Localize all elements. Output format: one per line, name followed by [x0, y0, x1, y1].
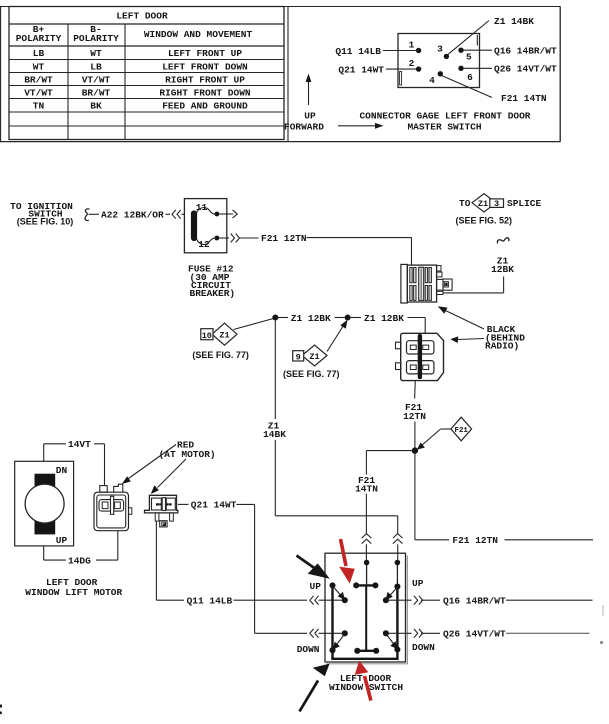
wire F21 12TN from breaker to connector C1 — [219, 233, 411, 265]
inline connector break on Z1 14BK — [393, 534, 403, 561]
svg-text:DN: DN — [56, 465, 68, 476]
svg-text:DOWN: DOWN — [412, 642, 435, 653]
svg-text:LB: LB — [33, 48, 45, 59]
svg-text:Q16 14BR/WT: Q16 14BR/WT — [494, 46, 557, 57]
svg-text:F21 12TN: F21 12TN — [261, 233, 307, 244]
svg-text:WINDOW AND MOVEMENT: WINDOW AND MOVEMENT — [144, 29, 253, 40]
svg-text:(SEE FIG. 10): (SEE FIG. 10) — [17, 216, 74, 226]
off-page connector 10 Z1 (SEE FIG. 77) — [192, 319, 273, 360]
svg-text:LEFT FRONT UP: LEFT FRONT UP — [168, 48, 242, 59]
switch S1 left door window switch — [325, 553, 407, 664]
svg-text:F21 12TN: F21 12TN — [452, 535, 498, 546]
svg-text:10: 10 — [202, 331, 212, 341]
svg-text:BR/WT: BR/WT — [24, 74, 53, 85]
wire Z1 12BK bus with junctions — [272, 313, 425, 334]
svg-text:Z1: Z1 — [219, 331, 229, 341]
svg-text:LB: LB — [90, 61, 102, 72]
wire Z1 12BK splice pigtail — [443, 238, 514, 293]
svg-text:VT/WT: VT/WT — [24, 87, 53, 98]
label BLACK BEHIND RADIO with arrows — [438, 306, 525, 351]
svg-text:DOWN: DOWN — [297, 644, 320, 655]
connector face J1 master switch — [398, 34, 480, 88]
svg-text:BK: BK — [90, 101, 102, 112]
connector C2 black behind radio lower — [396, 333, 444, 380]
pin 3 — [437, 44, 449, 60]
svg-text:14DG: 14DG — [68, 555, 91, 566]
switch S1 wiper up-right — [386, 588, 397, 600]
svg-text:Q21 14WT: Q21 14WT — [191, 500, 237, 511]
svg-text:WT: WT — [90, 48, 102, 59]
wire F21 12TN to right edge — [415, 454, 593, 547]
pin 6 — [458, 66, 473, 83]
svg-text:F21: F21 — [455, 427, 469, 435]
splice reference TO Z1 3 SPLICE — [456, 194, 542, 226]
wire Q21 14WT — [178, 500, 345, 638]
svg-text:(SEE FIG. 77): (SEE FIG. 77) — [283, 369, 340, 379]
wire pin4 F21 14TN — [442, 76, 547, 104]
inline connector break on F21 14TN — [362, 534, 372, 561]
node TO IGNITION SWITCH — [10, 201, 89, 226]
caption connector gage — [359, 111, 530, 133]
svg-text:Q11 14LB: Q11 14LB — [335, 46, 381, 57]
annotation arrow red upper — [339, 539, 355, 584]
svg-text:(SEE FIG. 77): (SEE FIG. 77) — [192, 350, 249, 360]
wire pin1 Q11 14LB — [335, 46, 416, 57]
svg-text:POLARITY: POLARITY — [73, 33, 119, 44]
wiring legend table LEFT DOOR — [9, 7, 284, 140]
svg-text:Q16 14BR/WT: Q16 14BR/WT — [443, 595, 506, 606]
svg-text:Q26 14VT/WT: Q26 14VT/WT — [494, 64, 557, 75]
svg-text:Q26 14VT/WT: Q26 14VT/WT — [443, 629, 506, 640]
svg-text:12TN: 12TN — [403, 411, 426, 422]
wire Q26 14VT/WT — [386, 629, 590, 640]
svg-text:Z1: Z1 — [309, 352, 319, 362]
wire pin2 Q21 14WT — [338, 64, 416, 75]
annotation arrow red lower — [355, 661, 371, 701]
wire F21 12TN below C2 — [403, 381, 426, 448]
annotation arrow black lower — [300, 664, 330, 712]
orientation arrows UP FORWARD — [284, 74, 384, 133]
annotation arrow black upper — [297, 556, 330, 579]
svg-text:FEED AND GROUND: FEED AND GROUND — [162, 101, 248, 112]
svg-text:4: 4 — [429, 75, 435, 86]
circuit breaker CB1 FUSE #12 — [184, 199, 226, 253]
off-page connector diamond F21 — [417, 417, 472, 450]
connector C4 at motor — [145, 495, 178, 527]
svg-text:3: 3 — [437, 44, 443, 55]
svg-text:Q21 14WT: Q21 14WT — [338, 64, 384, 75]
svg-text:UP: UP — [304, 111, 316, 122]
motor M1 left door window lift motor — [15, 461, 123, 598]
svg-text:TO: TO — [459, 198, 471, 209]
wire pin6 Q26 14VT/WT — [464, 64, 557, 75]
label LEFT DOOR WINDOW SWITCH — [329, 673, 403, 693]
pin 2 — [409, 58, 422, 72]
svg-text:BR/WT: BR/WT — [82, 87, 111, 98]
svg-text:1: 1 — [409, 40, 415, 51]
svg-text:12BK: 12BK — [491, 264, 514, 275]
svg-text:UP: UP — [412, 578, 424, 589]
svg-text:VT/WT: VT/WT — [82, 74, 111, 85]
svg-text:UP: UP — [310, 581, 322, 592]
svg-text:9: 9 — [296, 352, 301, 362]
wire Z1 14BK vertical — [263, 321, 398, 535]
svg-text:RIGHT FRONT DOWN: RIGHT FRONT DOWN — [159, 87, 251, 98]
svg-text:RIGHT FRONT UP: RIGHT FRONT UP — [165, 74, 245, 85]
switch S1 wiper down-right — [387, 635, 398, 649]
svg-text:(SEE FIG. 52): (SEE FIG. 52) — [456, 215, 513, 225]
wire pin5 Q16 14BR/WT — [464, 46, 557, 57]
svg-text:BREAKER): BREAKER) — [190, 288, 236, 299]
svg-text:Z1 12BK: Z1 12BK — [364, 313, 404, 324]
svg-text:WT: WT — [33, 61, 45, 72]
switch S1 UP DOWN labels — [297, 578, 435, 655]
svg-text:CONNECTOR GAGE LEFT FRONT DOOR: CONNECTOR GAGE LEFT FRONT DOOR — [359, 111, 530, 122]
svg-text:Z1: Z1 — [478, 199, 488, 209]
label FUSE #12 30 AMP CIRCUIT BREAKER — [188, 264, 235, 299]
wire 14VT motor to connector C3 — [44, 439, 105, 486]
svg-text:Z1 14BK: Z1 14BK — [494, 16, 534, 27]
wire Q16 14BR/WT — [386, 595, 593, 606]
svg-text:2: 2 — [409, 58, 415, 69]
switch S1 internal common bus — [331, 585, 398, 658]
switch S1 feed contacts from F21 14TN and Z1 14BK — [364, 560, 400, 587]
svg-text:RADIO): RADIO) — [485, 340, 519, 351]
svg-text:Z1 12BK: Z1 12BK — [291, 313, 331, 324]
wire 14DG motor to connector C3 — [44, 531, 118, 567]
switch S1 wiper up-left — [334, 587, 345, 600]
label RED AT MOTOR with arrows — [122, 439, 216, 494]
svg-text:LEFT FRONT DOWN: LEFT FRONT DOWN — [162, 61, 248, 72]
svg-text:14TN: 14TN — [355, 483, 378, 494]
scan artifacts right edge — [600, 605, 603, 644]
svg-text:UP: UP — [56, 535, 68, 546]
pin 4 — [429, 71, 443, 86]
frame around header section — [0, 7, 561, 142]
svg-text:POLARITY: POLARITY — [16, 33, 62, 44]
wire A22 12BK/OR — [89, 210, 185, 221]
junction node F21 — [412, 447, 418, 453]
fuse output 11 arrow — [219, 210, 237, 218]
pin 5 — [458, 48, 472, 63]
switch S1 contact dots — [329, 582, 400, 653]
wire pin3 Z1 14BK — [448, 16, 535, 55]
wire Q11 14LB — [156, 521, 344, 606]
svg-text:5: 5 — [466, 52, 472, 63]
svg-text:WINDOW LIFT MOTOR: WINDOW LIFT MOTOR — [25, 587, 122, 598]
svg-text:14BK: 14BK — [263, 429, 286, 440]
svg-text:MASTER SWITCH: MASTER SWITCH — [407, 122, 481, 133]
connector C1 black behind radio upper — [401, 264, 452, 303]
svg-text:F21 14TN: F21 14TN — [501, 93, 547, 104]
off-page connector 9 Z1 (SEE FIG. 77) — [283, 320, 348, 379]
svg-text:FORWARD: FORWARD — [284, 122, 324, 133]
svg-text:A22 12BK/OR: A22 12BK/OR — [101, 210, 164, 221]
wire F21 14TN junction to switch — [355, 451, 412, 535]
svg-text:14VT: 14VT — [68, 439, 91, 450]
page margin mark — [0, 705, 2, 715]
svg-text:LEFT DOOR: LEFT DOOR — [116, 11, 168, 22]
svg-text:Q11 14LB: Q11 14LB — [187, 596, 233, 607]
pin 1 — [409, 40, 422, 54]
svg-text:6: 6 — [467, 72, 473, 83]
svg-text:SPLICE: SPLICE — [507, 198, 542, 209]
svg-text:3: 3 — [494, 199, 499, 209]
switch S1 wiper down-left — [333, 635, 344, 650]
connector C3 at motor — [94, 484, 132, 531]
svg-text:TN: TN — [33, 101, 45, 112]
